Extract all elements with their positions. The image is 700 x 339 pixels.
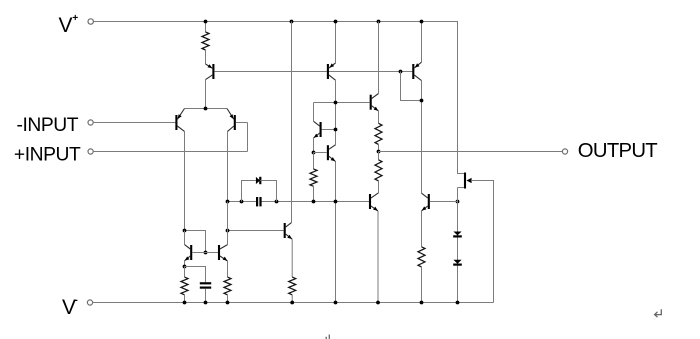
- Q2 emitter diagonal: [177, 109, 184, 120]
- wire: Q5 emitter up to V+: [421, 22, 423, 63]
- node: V- / R5: [183, 301, 187, 305]
- wire: R5 to V-: [184, 295, 186, 303]
- Q6 emitter diagonal: [185, 256, 191, 261]
- wire: Q2 collector down: [184, 131, 186, 230]
- wire: to R5: [184, 267, 186, 278]
- wire: to R2: [313, 153, 315, 170]
- wire: JFET gate run + right loop: [471, 181, 494, 303]
- Q9 collector diagonal: [422, 193, 428, 198]
- node: R2 bottom: [312, 200, 316, 204]
- wire: Q12 emitter down: [313, 138, 315, 153]
- resistor R3: [375, 123, 382, 144]
- wire: Q13 base: [314, 152, 327, 154]
- node: comp left: [226, 200, 230, 204]
- Q12 emitter arrow (NPN): [314, 134, 319, 138]
- node: base run / x335: [334, 101, 338, 105]
- transistor Q2 bar: [175, 115, 177, 130]
- node: diff tail junction: [204, 107, 208, 111]
- wire: C2 bottom lead: [205, 289, 207, 303]
- wire: R8 to V-: [421, 267, 423, 303]
- node: V- / R7: [290, 301, 294, 305]
- node: V+ / Q5: [420, 20, 424, 24]
- wire: R2 to comp rail: [313, 186, 315, 201]
- Q2 collector diagonal: [177, 126, 184, 131]
- base rail (Q1/Q4/Q5 bases): [214, 71, 412, 73]
- node: V- / x335: [334, 301, 338, 305]
- node: diode branch left: [240, 200, 244, 204]
- transistor Q8 bar: [284, 223, 286, 238]
- JFET J1 channel bar: [464, 173, 466, 189]
- wire: x=335 vertical upper: [335, 80, 337, 145]
- V- rail: [93, 302, 494, 304]
- transistor Q12 bar: [320, 122, 322, 137]
- resistor R4: [375, 160, 382, 181]
- wire: x=335 vertical lower: [335, 162, 337, 303]
- wire: R1 bottom lead: [205, 50, 207, 64]
- Q2 emitter arrow (PNP): [178, 114, 182, 119]
- Q7 collector diagonal: [220, 245, 228, 249]
- terminal V-: [87, 300, 92, 305]
- Q10 emitter diagonal: [372, 106, 379, 111]
- Q13 collector diagonal: [329, 145, 336, 150]
- terminal -INPUT: [88, 120, 93, 125]
- node: V- / Q11: [376, 301, 380, 305]
- svg-text:-: -: [75, 295, 78, 306]
- resistor R7: [289, 277, 296, 295]
- Q13 emitter diagonal: [329, 156, 336, 161]
- wire: R4 to Q11 collector: [378, 181, 380, 193]
- wire: Q6 collector up: [184, 231, 186, 245]
- Q11 collector diagonal: [371, 193, 379, 198]
- resistor R1: [202, 32, 209, 50]
- wire: Q8 collector up to V+: [291, 22, 293, 223]
- node: V+ / Q8 collector: [290, 20, 294, 24]
- node: V- / diodes: [456, 301, 460, 305]
- node: V+ / R1: [204, 20, 208, 24]
- transistor Q5 bar: [412, 64, 414, 79]
- capacitor C2 plates: [200, 282, 211, 284]
- wire: OUTPUT run: [379, 151, 563, 153]
- wire: Q9 base to diode stack: [430, 201, 458, 203]
- svg-text:OUTPUT: OUTPUT: [578, 140, 657, 162]
- wire: Q11 emitter down: [377, 211, 379, 303]
- wire: x227 between comp and mirror: [227, 202, 229, 231]
- node: V+ / Q4: [334, 20, 338, 24]
- Q8 emitter diagonal: [286, 234, 293, 239]
- wire: +input run: [93, 151, 247, 153]
- wire: diode branch left: [242, 181, 256, 202]
- resistor R6: [224, 277, 231, 295]
- node: V- / R8: [420, 301, 424, 305]
- wire: -input to Q2 base: [93, 122, 175, 124]
- wire: comp rail left segment: [228, 201, 257, 203]
- wire: Q8 emitter to R7: [291, 239, 293, 277]
- wire: Q5 collector down to Q9: [421, 81, 423, 194]
- node: V+ / Q10: [377, 20, 381, 24]
- wire: Q7 emitter to R6: [227, 261, 229, 277]
- node: tie junction: [420, 99, 424, 103]
- Q8 emitter arrow (NPN): [287, 235, 292, 239]
- wire: Q3 base to right: [236, 122, 248, 124]
- transistor Q1 bar: [212, 64, 214, 79]
- wire: Q12 collector up: [313, 103, 315, 122]
- Q6 collector diagonal: [185, 245, 191, 249]
- wire: +input riser: [247, 123, 249, 152]
- wire: Q7 base: [206, 252, 219, 254]
- Q12 emitter diagonal: [314, 133, 320, 138]
- Q11 emitter diagonal: [371, 206, 378, 211]
- diode D2: [453, 260, 461, 264]
- terminal OUTPUT: [562, 149, 567, 154]
- wire: R1 top lead: [205, 22, 207, 33]
- wire: Q3 collector down: [227, 131, 229, 201]
- svg-text:+: +: [72, 13, 78, 24]
- wire: Q7 collector up: [227, 231, 229, 245]
- transistor Q6 bar: [190, 245, 192, 260]
- Q5 collector diagonal: [414, 75, 421, 81]
- wire: Q10 collector up to V+: [378, 22, 380, 94]
- node: V- / C2: [204, 301, 208, 305]
- Q1 emitter arrow (PNP): [208, 64, 213, 68]
- svg-text:V: V: [59, 14, 73, 37]
- node: mirror bases: [204, 251, 208, 255]
- Q9 emitter diagonal: [422, 206, 428, 211]
- node: Q6 emitter / C2 branch: [183, 265, 187, 269]
- Q1 collector diagonal: [206, 75, 213, 80]
- JFET gate arrow: [466, 178, 471, 183]
- Q13 emitter arrow (NPN): [331, 157, 336, 161]
- wire: Q6 emitter down: [184, 261, 186, 267]
- wire: comp rail right segment (Q11 base): [261, 201, 369, 203]
- Q1 emitter diagonal: [206, 64, 213, 68]
- wire: Q6 base: [192, 252, 205, 254]
- node: V- / R6: [226, 301, 230, 305]
- node: Q5 base tie: [399, 70, 403, 74]
- return mark artifact bottom (cut off): [326, 335, 329, 339]
- Q5 emitter arrow (PNP): [415, 63, 420, 67]
- resistor R5: [181, 277, 188, 295]
- Q10 collector diagonal: [372, 94, 379, 99]
- wire: Q10 base run: [314, 102, 370, 104]
- Q6 emitter arrow (NPN): [185, 256, 190, 260]
- diode D3: [256, 177, 260, 184]
- return mark artifact right: [655, 309, 662, 317]
- wire: Q9 emitter to R8: [421, 211, 423, 247]
- wire: R6 to V-: [227, 295, 229, 303]
- wire: Q4 emitter up to V+: [335, 22, 337, 64]
- Q9 emitter arrow (NPN): [422, 206, 427, 210]
- Q4 collector diagonal: [329, 75, 336, 80]
- Q8 collector diagonal: [286, 223, 292, 228]
- svg-text:+INPUT: +INPUT: [14, 145, 81, 166]
- diode D1: [453, 232, 461, 236]
- Q7 emitter diagonal: [220, 256, 228, 261]
- Q3 emitter diagonal: [227, 109, 234, 120]
- node: Q12 emitter / Q13 base / R2: [312, 151, 316, 155]
- transistor Q3 bar: [234, 115, 236, 130]
- wire: to R3: [378, 111, 380, 123]
- Q5 emitter diagonal: [414, 62, 421, 68]
- Q4 emitter diagonal: [329, 63, 336, 68]
- wire: R7 to V-: [291, 295, 293, 303]
- wire: mirror base feed: [185, 231, 206, 253]
- node: Q3 collector / Q7 / Q8 base: [226, 229, 230, 233]
- transistor Q9 bar: [428, 194, 430, 209]
- node: Q2 collector / Q6 collector: [183, 229, 187, 233]
- Q3 emitter arrow (PNP): [230, 114, 234, 119]
- terminal +INPUT: [88, 149, 93, 154]
- terminal V+: [88, 19, 93, 24]
- wire: diode stack vertical: [457, 202, 459, 303]
- svg-text:-INPUT: -INPUT: [17, 115, 79, 136]
- node: x335 / comp rail: [334, 200, 338, 204]
- transistor Q7 bar: [218, 245, 220, 260]
- resistor R2: [310, 169, 317, 186]
- resistor R8: [418, 247, 425, 267]
- node: comp rail right end: [456, 200, 460, 204]
- JFET source lead: [458, 187, 464, 189]
- Q10 emitter arrow (NPN): [374, 107, 379, 111]
- Q4 emitter arrow (PNP): [329, 63, 334, 67]
- wire: Q12 base to x335: [322, 129, 336, 131]
- wire: output node to R4: [378, 152, 380, 160]
- wire: Q5 base-collector tie: [401, 72, 422, 101]
- wire: JFET source down: [457, 188, 459, 202]
- transistor Q10 bar: [370, 95, 372, 110]
- transistor Q4 bar: [327, 64, 329, 79]
- node: diode branch right: [275, 200, 279, 204]
- wire: R3 to output node: [378, 144, 380, 151]
- transistor Q13 bar: [327, 145, 329, 160]
- wire: diff pair emitter rail: [185, 108, 228, 110]
- node: output junction: [377, 150, 381, 154]
- Q7 emitter arrow (NPN): [223, 257, 228, 261]
- wire: Q8 base run: [228, 230, 284, 232]
- V+ rail: [94, 22, 464, 174]
- Q12 collector diagonal: [314, 121, 320, 126]
- wire: Q1 collector down: [205, 80, 207, 109]
- transistor Q11 bar: [369, 194, 371, 209]
- capacitor C1 plates: [256, 197, 258, 206]
- Q11 emitter arrow (NPN): [373, 207, 378, 211]
- wire: diode branch right: [260, 181, 276, 202]
- Q3 collector diagonal: [228, 126, 234, 131]
- node: Q12 base / x335: [334, 128, 338, 132]
- wire: C2 branch: [185, 267, 206, 283]
